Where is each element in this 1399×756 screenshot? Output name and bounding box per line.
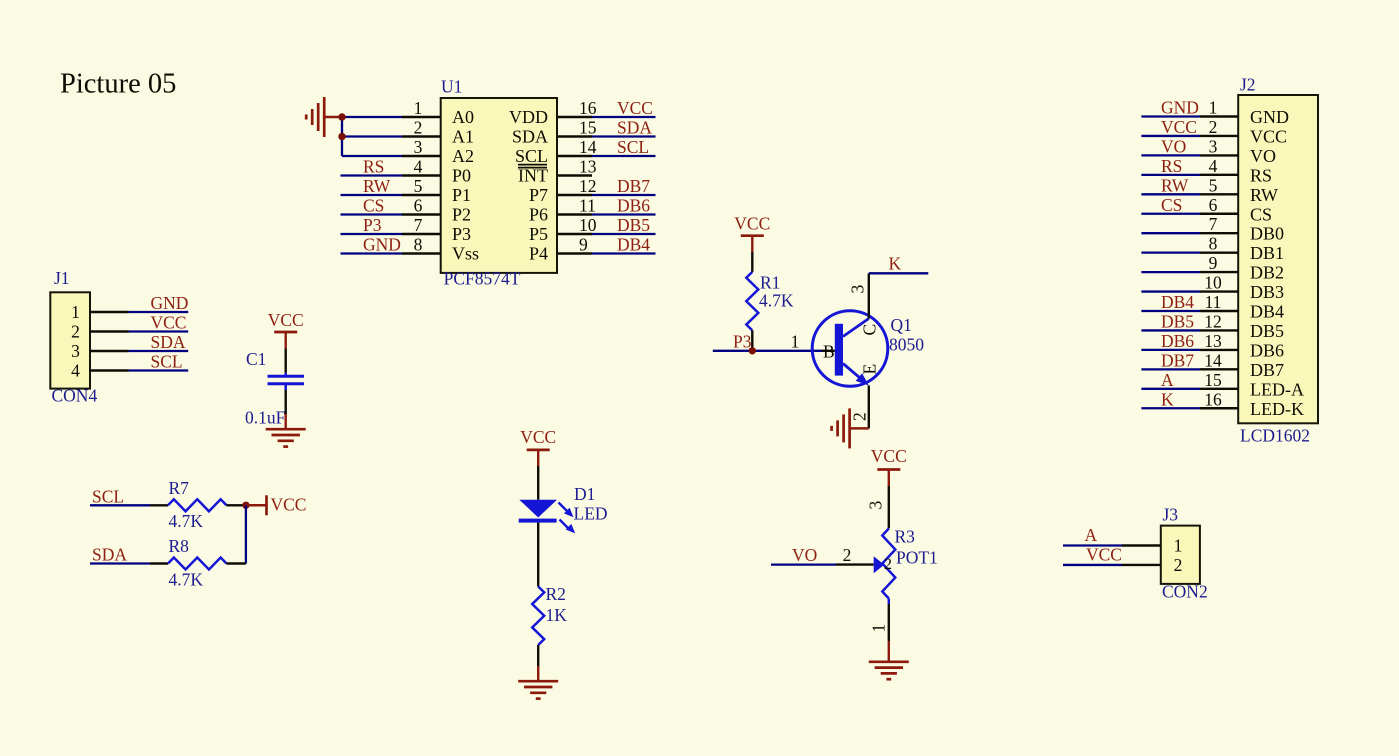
J2 pin 10 stub (1200, 290, 1238, 292)
wire pin3 net (342, 155, 402, 157)
svg-text:10: 10 (1204, 273, 1222, 293)
J2 pin 8 stub (1200, 251, 1238, 253)
svg-text:15: 15 (1204, 370, 1222, 390)
wire (227, 504, 243, 506)
svg-text:4.7K: 4.7K (169, 570, 204, 590)
svg-text:16: 16 (1204, 389, 1222, 409)
J1 pin 4 stub (90, 369, 129, 371)
Q1 emitter pin (868, 386, 870, 429)
svg-text:7: 7 (414, 215, 423, 235)
wire (537, 450, 539, 466)
svg-text:1K: 1K (546, 605, 568, 625)
svg-text:SDA: SDA (92, 545, 127, 565)
wire (J2 pin 10) (1141, 290, 1200, 292)
J2 pin 2 stub (1200, 135, 1238, 137)
wire (J2 pin 3) (1141, 154, 1200, 156)
svg-text:DB4: DB4 (1161, 292, 1194, 312)
svg-text:GND: GND (1161, 98, 1199, 118)
svg-text:12: 12 (579, 176, 597, 196)
wire (537, 523, 539, 587)
svg-text:9: 9 (1209, 253, 1218, 273)
svg-text:3: 3 (414, 137, 423, 157)
svg-text:13: 13 (579, 157, 597, 177)
svg-text:2: 2 (843, 545, 852, 565)
svg-text:K: K (889, 254, 902, 274)
wire (850, 427, 869, 430)
svg-text:P4: P4 (529, 244, 548, 264)
ground (R3) (869, 660, 909, 663)
wire (888, 599, 891, 605)
U1 pin 16 stub (557, 116, 592, 118)
J2 pin 12 stub (1200, 329, 1238, 331)
U1 pin 15 stub (557, 135, 592, 137)
svg-text:5: 5 (1209, 175, 1218, 195)
svg-text:LED: LED (574, 504, 608, 524)
wire (J2 pin 7) (1141, 232, 1200, 234)
svg-text:PCF8574T: PCF8574T (444, 269, 521, 289)
svg-text:GND: GND (363, 235, 401, 255)
svg-text:16: 16 (579, 98, 597, 118)
wire (285, 390, 287, 414)
wire net CS (341, 213, 403, 215)
LED arrow 2 (560, 520, 570, 530)
svg-text:R1: R1 (760, 273, 780, 293)
svg-text:R7: R7 (169, 478, 190, 498)
R3 wiper arrow (874, 556, 885, 573)
svg-text:11: 11 (1205, 292, 1222, 312)
wire (245, 505, 247, 563)
svg-text:Vss: Vss (452, 244, 479, 264)
svg-text:0.1uF: 0.1uF (245, 408, 286, 428)
J1 pin 2 stub (90, 330, 129, 332)
svg-text:4.7K: 4.7K (759, 291, 794, 311)
J2 pin 13 stub (1200, 349, 1238, 351)
potentiometer R3 POT1 (882, 529, 895, 599)
J1 pin 1 stub (90, 311, 129, 313)
svg-text:12: 12 (1204, 311, 1222, 331)
wire (J2 pin 14) (1141, 368, 1200, 370)
svg-text:J3: J3 (1163, 505, 1179, 525)
wire (J2 pin 4) (1141, 174, 1200, 176)
svg-text:VCC: VCC (871, 446, 907, 466)
svg-text:A2: A2 (452, 146, 474, 166)
connector J2 body (1238, 95, 1318, 423)
U1 pin 5 stub (402, 194, 441, 196)
J2 pin 11 stub (1200, 310, 1238, 312)
svg-text:VO: VO (1250, 146, 1276, 166)
svg-text:DB6: DB6 (1250, 340, 1284, 360)
svg-text:RS: RS (1250, 165, 1272, 185)
wire base net (713, 350, 822, 352)
svg-text:SCL: SCL (92, 487, 124, 507)
svg-text:DB7: DB7 (617, 176, 650, 196)
svg-text:RW: RW (363, 176, 391, 196)
svg-text:8: 8 (1209, 234, 1218, 254)
svg-text:15: 15 (579, 118, 597, 138)
svg-text:1: 1 (791, 332, 800, 352)
svg-text:P7: P7 (529, 185, 548, 205)
SCL underline / INT overline (518, 164, 547, 166)
J3 pin 2 stub (1122, 564, 1161, 566)
svg-text:VCC: VCC (151, 313, 187, 333)
LED D1 (519, 500, 557, 518)
svg-text:P5: P5 (529, 224, 548, 244)
wire net GND (J1) (129, 311, 189, 313)
wire net DB4 (U1 right) (592, 252, 656, 254)
svg-text:7: 7 (1209, 214, 1218, 234)
J3 pin 1 stub (1122, 544, 1161, 546)
svg-text:DB7: DB7 (1250, 360, 1284, 380)
svg-text:J2: J2 (1240, 75, 1256, 95)
J2 pin 15 stub (1200, 388, 1238, 390)
U1 pin 9 stub (557, 252, 592, 254)
svg-text:4: 4 (1209, 156, 1218, 176)
wire (324, 116, 342, 119)
svg-text:1: 1 (1209, 98, 1218, 118)
svg-text:D1: D1 (574, 484, 595, 504)
svg-text:DB3: DB3 (1250, 282, 1284, 302)
svg-text:8050: 8050 (889, 335, 924, 355)
svg-text:DB5: DB5 (617, 215, 650, 235)
junction A0 (338, 113, 345, 120)
svg-text:R2: R2 (546, 584, 566, 604)
svg-text:SDA: SDA (151, 332, 186, 352)
svg-text:CS: CS (1161, 195, 1182, 215)
svg-text:P3: P3 (733, 332, 752, 352)
resistor R2 (532, 587, 544, 646)
svg-text:Picture 05: Picture 05 (60, 69, 176, 100)
svg-text:P2: P2 (452, 205, 471, 225)
svg-text:RW: RW (1250, 185, 1278, 205)
svg-text:VO: VO (792, 545, 817, 565)
svg-text:DB5: DB5 (1161, 311, 1194, 331)
wire net DB5 (U1 right) (592, 233, 656, 235)
ground (R2) (518, 680, 558, 683)
svg-text:P6: P6 (529, 205, 548, 225)
ground (U1 address pins) (323, 97, 326, 137)
svg-text:1: 1 (414, 98, 423, 118)
resistor R1 (746, 272, 758, 331)
wire net VO (771, 563, 836, 565)
ground (C1) (266, 428, 306, 431)
svg-text:6: 6 (414, 196, 423, 216)
wire (J2 pin 11) (1141, 310, 1200, 312)
junction A1 (338, 133, 345, 140)
Q1 collector pin (868, 273, 870, 318)
svg-text:VCC: VCC (271, 495, 307, 515)
U1 pin 7 stub (402, 233, 441, 235)
U1 pin 1 stub (402, 116, 441, 118)
svg-text:5: 5 (414, 176, 423, 196)
svg-text:VCC: VCC (520, 427, 556, 447)
svg-text:R3: R3 (895, 527, 916, 547)
wire (888, 470, 890, 487)
wire pin2 net (342, 135, 402, 137)
svg-text:CON2: CON2 (1162, 582, 1208, 602)
J2 pin 5 stub (1200, 193, 1238, 195)
U1 pin 6 stub (402, 213, 441, 215)
wire (J2 pin 15) (1141, 388, 1200, 390)
svg-text:LED-A: LED-A (1250, 379, 1304, 399)
svg-text:CON4: CON4 (52, 386, 98, 406)
LED arrow 1 (559, 503, 568, 512)
U1 pin 12 stub (557, 194, 592, 196)
svg-text:DB4: DB4 (1250, 302, 1284, 322)
svg-text:CS: CS (363, 196, 384, 216)
connector J3 body (1161, 526, 1200, 584)
svg-text:SDA: SDA (617, 118, 652, 138)
svg-text:RS: RS (1161, 156, 1182, 176)
J2 pin 14 stub (1200, 368, 1238, 370)
power VCC (pullups) (265, 495, 268, 515)
svg-text:C: C (860, 324, 880, 336)
svg-text:A0: A0 (452, 107, 474, 127)
wire net DB7 (U1 right) (592, 194, 656, 196)
wire pin1 net (342, 116, 402, 118)
svg-text:4: 4 (414, 157, 423, 177)
svg-text:VCC: VCC (1250, 126, 1287, 146)
svg-text:DB6: DB6 (617, 196, 650, 216)
svg-text:DB1: DB1 (1250, 243, 1284, 263)
svg-text:POT1: POT1 (896, 548, 938, 568)
wire net RW (341, 194, 403, 196)
svg-text:U1: U1 (441, 77, 462, 97)
svg-text:SCL: SCL (151, 352, 183, 372)
svg-text:GND: GND (151, 293, 189, 313)
wire (537, 645, 539, 666)
wire net VCC (J1) (129, 330, 189, 332)
svg-text:P0: P0 (452, 166, 471, 186)
junction R7/R8 to VCC (242, 502, 249, 509)
wire SCL (90, 504, 150, 506)
svg-text:2: 2 (1174, 555, 1183, 575)
svg-text:3: 3 (1209, 136, 1218, 156)
svg-text:4.7K: 4.7K (169, 511, 204, 531)
wire vertical A0-A2 tie (341, 117, 343, 156)
wire (J2 pin 6) (1141, 213, 1200, 215)
wire (J2 pin 9) (1141, 271, 1200, 273)
svg-text:VCC: VCC (1086, 544, 1122, 564)
wire (J2 pin 2) (1141, 135, 1200, 137)
svg-text:2: 2 (414, 118, 423, 138)
svg-text:4: 4 (71, 361, 80, 381)
svg-text:6: 6 (1209, 195, 1218, 215)
J2 pin 1 stub (1200, 115, 1238, 117)
wire (J2 pin 5) (1141, 193, 1200, 195)
svg-text:K: K (1161, 389, 1174, 409)
svg-text:B: B (823, 342, 835, 362)
svg-text:E: E (860, 364, 880, 375)
wire (J2 pin 12) (1141, 329, 1200, 331)
svg-text:R8: R8 (169, 536, 190, 556)
svg-text:DB6: DB6 (1161, 331, 1194, 351)
resistor R8 (168, 558, 227, 570)
svg-text:10: 10 (579, 215, 597, 235)
svg-text:RW: RW (1161, 175, 1189, 195)
capacitor C1 (284, 373, 287, 377)
svg-text:DB5: DB5 (1250, 321, 1284, 341)
svg-text:1: 1 (1174, 536, 1183, 556)
svg-text:DB0: DB0 (1250, 224, 1284, 244)
svg-text:9: 9 (579, 235, 588, 255)
wire (246, 504, 267, 507)
U1 pin 4 stub (402, 174, 441, 176)
svg-text:2: 2 (71, 322, 80, 342)
svg-text:VO: VO (1161, 136, 1186, 156)
svg-text:SCL: SCL (617, 137, 649, 157)
ground (Q1 emitter) (848, 408, 851, 448)
svg-text:VCC: VCC (617, 98, 653, 118)
svg-text:RS: RS (363, 157, 384, 177)
svg-text:Q1: Q1 (891, 315, 912, 335)
wire (888, 641, 890, 662)
J2 pin 4 stub (1200, 174, 1238, 176)
svg-text:P3: P3 (363, 215, 382, 235)
wire (227, 562, 246, 564)
U1 pin 11 stub (557, 213, 592, 215)
svg-text:2: 2 (884, 556, 892, 573)
wire (751, 236, 753, 252)
svg-text:2: 2 (850, 412, 870, 421)
svg-text:8: 8 (414, 235, 423, 255)
wire (J2 pin 13) (1141, 349, 1200, 351)
svg-text:11: 11 (579, 196, 596, 216)
svg-text:P3: P3 (452, 224, 471, 244)
U1 pin 3 stub (402, 155, 441, 157)
svg-text:1: 1 (869, 624, 889, 633)
wire net SCL (J1) (129, 369, 189, 371)
svg-text:14: 14 (579, 137, 597, 157)
svg-text:1: 1 (71, 302, 80, 322)
op-amp U1 body PCF8574T (441, 98, 557, 273)
svg-text:GND: GND (1250, 107, 1289, 127)
resistor R7 (168, 499, 227, 511)
J2 pin 6 stub (1200, 213, 1238, 215)
wire (J2 pin 8) (1141, 251, 1200, 253)
svg-text:VCC: VCC (734, 214, 770, 234)
svg-text:DB4: DB4 (617, 235, 650, 255)
svg-text:A1: A1 (452, 127, 474, 147)
svg-text:13: 13 (1204, 331, 1222, 351)
svg-text:3: 3 (848, 285, 868, 294)
U1 pin 8 stub (402, 252, 441, 254)
U1 pin 13 stub (557, 174, 592, 176)
svg-text:CS: CS (1250, 204, 1272, 224)
svg-text:DB7: DB7 (1161, 350, 1194, 370)
wire (J2 pin 16) (1141, 407, 1200, 409)
svg-text:P1: P1 (452, 185, 471, 205)
wire (J2 pin 1) (1141, 115, 1200, 117)
wire net DB6 (U1 right) (592, 213, 656, 215)
svg-text:3: 3 (866, 501, 886, 510)
svg-text:DB2: DB2 (1250, 263, 1284, 283)
wire net A (J3) (1063, 544, 1122, 546)
J1 pin 3 stub (90, 350, 129, 352)
wire SDA (90, 562, 150, 564)
wire net SCL (U1 right) (592, 155, 656, 157)
connector J1 body (50, 292, 90, 388)
svg-text:2: 2 (1209, 117, 1218, 137)
svg-text:VDD: VDD (509, 107, 548, 127)
svg-text:SDA: SDA (512, 127, 548, 147)
svg-text:A: A (1161, 370, 1174, 390)
junction P3/R1 (749, 347, 756, 354)
J2 pin 9 stub (1200, 271, 1238, 273)
J2 pin 7 stub (1200, 232, 1238, 234)
svg-text:3: 3 (71, 341, 80, 361)
wire (751, 330, 753, 350)
svg-text:J1: J1 (54, 268, 70, 288)
svg-text:VCC: VCC (268, 310, 304, 330)
wire net GND (341, 252, 403, 254)
wire net SDA (J1) (129, 350, 189, 352)
svg-text:14: 14 (1204, 350, 1222, 370)
wire net VCC (U1 right) (592, 116, 656, 118)
wire (285, 332, 287, 349)
wire net P3 (341, 233, 403, 235)
J2 pin 3 stub (1200, 154, 1238, 156)
svg-text:VCC: VCC (1161, 117, 1197, 137)
wire net SDA (U1 right) (592, 135, 656, 137)
svg-text:A: A (1085, 525, 1098, 545)
wire net K (869, 272, 929, 274)
wire net RS (341, 174, 403, 176)
J2 pin 16 stub (1200, 407, 1238, 409)
U1 pin 10 stub (557, 233, 592, 235)
svg-text:LCD1602: LCD1602 (1240, 426, 1310, 446)
svg-text:SCL: SCL (515, 146, 548, 166)
U1 pin 14 stub (557, 155, 592, 157)
svg-text:LED-K: LED-K (1250, 399, 1304, 419)
wire net VCC (J3) (1063, 564, 1122, 566)
transistor Q1 8050 (812, 311, 888, 387)
svg-text:C1: C1 (246, 349, 266, 369)
U1 pin 2 stub (402, 135, 441, 137)
